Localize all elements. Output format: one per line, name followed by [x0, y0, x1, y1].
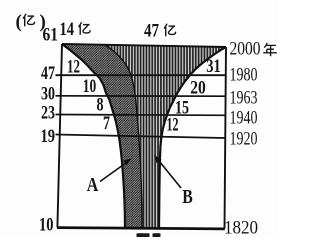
svg-text:47: 47 [144, 21, 159, 42]
svg-text:12: 12 [167, 116, 179, 136]
top label 14 亿 [60, 19, 90, 40]
hatched region between middle curve and curve B (vertical stripes) [105, 45, 226, 228]
arrow from B into middle band [154, 155, 181, 188]
svg-text:47: 47 [41, 63, 55, 84]
horizontal line 1940/23 [56, 114, 226, 117]
box left border [57, 44, 62, 227]
svg-text:19: 19 [41, 126, 56, 147]
svg-text:A: A [87, 174, 99, 196]
horizontal line 1920/19 [56, 135, 226, 139]
svg-text:1980: 1980 [230, 64, 258, 85]
box top border [62, 44, 226, 47]
box right border [225, 47, 227, 229]
svg-text:20: 20 [190, 79, 206, 99]
svg-text:61: 61 [43, 25, 59, 46]
middle boundary curve [105, 45, 142, 228]
svg-text:2000: 2000 [230, 38, 261, 59]
right axis label 2000 with 年 [230, 38, 277, 59]
horizontal line 1980/47 [56, 74, 226, 76]
svg-text:30: 30 [41, 84, 55, 105]
svg-text:14: 14 [60, 19, 75, 40]
horizontal line 1963/30 [56, 95, 226, 97]
svg-text:(: ( [16, 12, 22, 33]
svg-text:12: 12 [67, 58, 80, 78]
svg-text:7: 7 [103, 114, 110, 134]
svg-text:23: 23 [41, 103, 55, 124]
curve B (right boundary) [159, 47, 226, 228]
box bottom border [57, 228, 225, 229]
svg-text:8: 8 [97, 96, 104, 116]
y axis unit label (亿) [16, 12, 46, 33]
svg-text:10: 10 [39, 215, 54, 236]
svg-text:31: 31 [206, 57, 221, 77]
hatched region between curve A and middle curve (crosshatch) [62, 44, 142, 228]
svg-text:1940: 1940 [230, 107, 258, 128]
svg-text:1920: 1920 [230, 128, 258, 149]
svg-text:1963: 1963 [230, 87, 258, 108]
curve A (left boundary) [62, 44, 125, 228]
top label 47 亿 [144, 21, 175, 42]
svg-text:10: 10 [83, 77, 97, 97]
svg-text:B: B [182, 186, 193, 208]
svg-text:1820: 1820 [224, 218, 258, 238]
partial caption at bottom (clipped 图1) [137, 233, 161, 237]
arrow from A into left band [100, 158, 132, 181]
